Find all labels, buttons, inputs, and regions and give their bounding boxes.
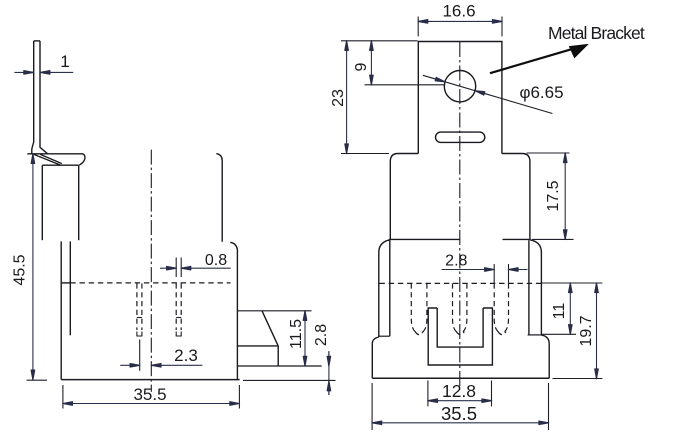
svg-text:9: 9 bbox=[353, 62, 370, 71]
tab left edge bbox=[32, 41, 34, 154]
hidden prong pair 2 bottom u bbox=[176, 332, 181, 337]
fold top line with right lip hook bbox=[27, 154, 85, 165]
fold diagonal 1 bbox=[34, 154, 61, 165]
body top right segment with corner bbox=[502, 154, 530, 240]
dim 35.5 ext left bbox=[62, 385, 64, 409]
svg-text:11.5: 11.5 bbox=[288, 319, 305, 349]
svg-text:Metal Bracket: Metal Bracket bbox=[548, 23, 645, 43]
right inner wall bbox=[528, 240, 530, 335]
centerline (dash-dot) bbox=[150, 150, 152, 392]
svg-text:2.8: 2.8 bbox=[313, 324, 330, 346]
svg-text:1: 1 bbox=[60, 52, 69, 71]
dim 35.5 ext right (front) bbox=[548, 383, 550, 430]
hidden prong B bbox=[453, 283, 467, 334]
dim 23 bottom extension bbox=[341, 153, 389, 155]
hidden line horizontal (dashed) bbox=[380, 282, 542, 284]
tab top cap bbox=[34, 40, 40, 42]
side tab wedge diagonal bbox=[262, 311, 278, 346]
hidden line extension right bbox=[541, 282, 602, 284]
dim 11 bottom extension bbox=[542, 333, 576, 335]
slot bbox=[436, 132, 485, 142]
dim 19.7 line bbox=[596, 283, 598, 379]
dim 23 line bbox=[346, 41, 348, 154]
dim 45.5 line bbox=[32, 154, 34, 380]
dim 2.3 left arrow bbox=[120, 364, 139, 366]
left flare to lower body bbox=[379, 240, 391, 337]
dim 2.8 upper arrow bbox=[328, 352, 330, 366]
dim 35.5 ext right bbox=[238, 385, 240, 409]
left inner wall bbox=[389, 240, 391, 336]
shoulder line left segment bbox=[389, 238, 460, 240]
metal bracket leader arrow bbox=[490, 48, 575, 73]
phi arrow upper-left bbox=[431, 78, 445, 82]
svg-text:12.8: 12.8 bbox=[442, 381, 476, 401]
right inner wall line with top hook bbox=[216, 154, 222, 242]
body top left segment with corner bbox=[390, 154, 418, 240]
svg-text:19.7: 19.7 bbox=[578, 315, 595, 346]
dim 2.8 ext tick right bbox=[508, 264, 510, 284]
dim 19.7 bottom extension bbox=[553, 378, 603, 380]
upper channel left vertical bbox=[41, 165, 43, 240]
dim 11 line bbox=[569, 283, 571, 334]
svg-text:35.5: 35.5 bbox=[441, 403, 477, 424]
upper channel right vertical bbox=[78, 165, 80, 240]
hidden prong C bbox=[494, 283, 508, 334]
right flare to lower body bbox=[530, 240, 542, 335]
dim 0.8 ext tick left bbox=[175, 258, 177, 278]
dim 17.5 line bbox=[564, 153, 566, 239]
tab rectangle bbox=[418, 42, 502, 154]
dim 1 left leader bbox=[14, 71, 33, 73]
metal bracket arrowhead bbox=[570, 45, 588, 58]
dim 2.8 line (left view) bbox=[328, 351, 330, 395]
hidden prong pair 1 mid tick bbox=[137, 317, 142, 319]
left base step bbox=[372, 337, 379, 378]
dim 9 bottom extension bbox=[365, 84, 446, 86]
dim 2.8 bottom extension bbox=[243, 379, 336, 381]
lower body left inner edge bbox=[69, 241, 71, 335]
dim 12.8 ext left bbox=[427, 381, 429, 407]
hole circle bbox=[444, 71, 475, 102]
hidden prong pair 2 left edge bbox=[175, 283, 177, 330]
svg-text:35.5: 35.5 bbox=[133, 385, 166, 404]
right wall bottom tick bbox=[528, 334, 543, 336]
dim 35.5 line (front) bbox=[372, 422, 548, 424]
hidden prong pair 1 right edge bbox=[141, 283, 143, 330]
solid tick at hidden line level bbox=[61, 282, 70, 284]
hidden prong pair 2 mid tick bbox=[176, 317, 181, 319]
dim 0.8 right leader bbox=[181, 267, 231, 269]
svg-text:11: 11 bbox=[551, 303, 568, 320]
dim 2.8 left leader bbox=[442, 269, 495, 271]
svg-text:23: 23 bbox=[330, 89, 347, 107]
side tab mid line bbox=[238, 345, 279, 347]
U channel inner cavity bbox=[437, 308, 483, 347]
dim 45.5 bottom extension bbox=[27, 379, 48, 381]
dim 16.6 line bbox=[418, 20, 502, 22]
hidden prong A bbox=[411, 283, 427, 334]
dim 0.8 left arrow bbox=[160, 267, 176, 269]
dim 9 line bbox=[370, 41, 372, 85]
dim 16.6 ext right bbox=[501, 17, 503, 37]
dim 2.3 ext line bbox=[139, 340, 141, 371]
dim 17.5 top extension bbox=[527, 152, 570, 154]
side tab block right edge bbox=[277, 346, 279, 366]
dim 12.8 line bbox=[428, 400, 492, 402]
svg-text:0.8: 0.8 bbox=[205, 252, 227, 269]
lower body left outer edge bbox=[60, 241, 62, 379]
hidden prong pair 2 right edge bbox=[180, 283, 182, 330]
dim 12.8 ext right bbox=[491, 381, 493, 407]
hidden prong pair 1 left edge bbox=[136, 283, 138, 330]
dim 1 right leader bbox=[40, 71, 73, 73]
hidden line horizontal (dashed) bbox=[70, 282, 230, 284]
centerline (dash-dot) bbox=[459, 42, 461, 386]
tab right edge bbox=[40, 41, 48, 154]
svg-text:2.8: 2.8 bbox=[445, 253, 467, 270]
fold diagonal 2 bbox=[40, 154, 62, 163]
phi leader line bbox=[423, 75, 553, 113]
dim 35.5 line bbox=[63, 403, 240, 405]
bottom edge bbox=[372, 377, 549, 379]
dim 2.8 ext tick left bbox=[493, 264, 495, 284]
body top inner line bbox=[42, 164, 79, 166]
phi arrow lower-right bbox=[475, 91, 489, 95]
dim 17.5 bottom extension bbox=[532, 238, 574, 240]
dim 0.8 ext tick right bbox=[180, 258, 182, 278]
dim 2.3 right leader bbox=[151, 364, 202, 366]
dim 2.8 lower arrow bbox=[328, 381, 330, 395]
U channel outline bbox=[428, 308, 492, 365]
bottom edge bbox=[61, 379, 239, 381]
svg-text:φ6.65: φ6.65 bbox=[519, 83, 563, 102]
dim 16.6 ext left bbox=[417, 17, 419, 37]
hidden prong pair 1 bottom u bbox=[137, 332, 142, 337]
left wall bottom tick bbox=[379, 335, 390, 337]
svg-text:16.6: 16.6 bbox=[442, 2, 475, 21]
svg-text:45.5: 45.5 bbox=[12, 254, 29, 285]
dim 2.8 right leader bbox=[509, 269, 528, 271]
right base step bbox=[541, 335, 549, 378]
shoulder line right segment bbox=[503, 238, 531, 240]
side tab bottom line + extension bbox=[238, 365, 322, 367]
dim 11.5 line bbox=[304, 311, 306, 366]
right outer edge with top hook bbox=[230, 242, 237, 379]
svg-text:2.3: 2.3 bbox=[174, 346, 198, 365]
dim 35.5 ext left (front) bbox=[371, 383, 373, 430]
side tab wedge top line + extension bbox=[238, 310, 312, 312]
svg-text:17.5: 17.5 bbox=[545, 180, 562, 211]
dim 23 top extension bbox=[341, 40, 418, 42]
